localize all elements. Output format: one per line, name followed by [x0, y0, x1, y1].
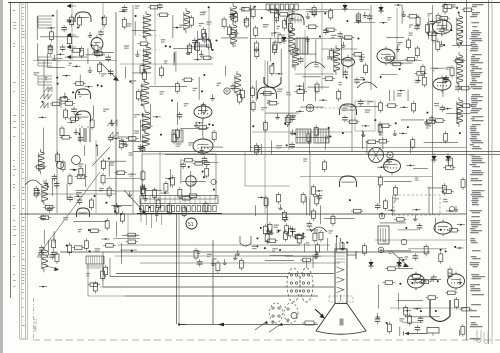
- connector circle d: [224, 88, 230, 94]
- top edge row components: [119, 2, 457, 35]
- svg-text:7BR-301: 7BR-301: [34, 319, 38, 332]
- coil L14: [334, 45, 340, 75]
- connector circle g: [449, 206, 454, 211]
- wire y176 segment: [300, 176, 433, 178]
- socket pin circles: [272, 307, 289, 323]
- vertical wire x213: [212, 240, 214, 325]
- CRT anode connection: [347, 251, 356, 259]
- CRT neck top leads: [336, 238, 344, 249]
- wire L corner: [245, 152, 290, 186]
- wire yoke line y273: [116, 273, 334, 275]
- connector circle f: [306, 104, 314, 112]
- wire y132 segment: [252, 131, 352, 133]
- tube V7b sync sep: [340, 104, 357, 115]
- wire bus y263: [140, 262, 340, 264]
- tube V17a small circle: [186, 176, 196, 186]
- tube V6 video amp: [286, 14, 304, 25]
- wire y60 segment: [33, 60, 116, 62]
- flyback dashed box: [394, 195, 440, 215]
- socket pointer arrows: [255, 321, 283, 332]
- coil L19 linearity coil: [42, 247, 48, 272]
- terminal strip TS1: [140, 206, 216, 212]
- tube V2a: [76, 89, 91, 99]
- small tube circle a: [56, 161, 63, 168]
- wire bus y148: [250, 147, 466, 149]
- beam arrow: [315, 309, 325, 319]
- RF tuner components: [34, 15, 114, 94]
- waveform marks left: [40, 94, 52, 108]
- dashed link wire: [316, 107, 352, 109]
- IF strip components: [122, 5, 249, 105]
- vertical wire x265: [264, 60, 266, 214]
- wire bottom run y324: [178, 324, 318, 326]
- vertical wire x322: [321, 3, 323, 90]
- CRT socket center circle: [291, 313, 297, 319]
- fuse box bottom right: [427, 328, 439, 337]
- vertical wire x289: [288, 8, 290, 150]
- vertical wire x371: [370, 5, 372, 90]
- sync components: [251, 99, 378, 156]
- coil L2: [143, 44, 151, 74]
- vertical wire x155: [154, 5, 156, 85]
- shield box V8: [355, 101, 375, 131]
- channel selector contact bank 2: [38, 57, 52, 66]
- coil L11: [235, 71, 241, 96]
- wire bus y252: [60, 251, 430, 253]
- video output components: [256, 221, 321, 268]
- brightness pot: [302, 321, 317, 325]
- vertical wire x72: [71, 3, 73, 60]
- output transformer T2: [86, 256, 104, 264]
- wire hump jump d: [25, 180, 41, 185]
- section divider x128 lower: [127, 214, 129, 245]
- diode D3: [431, 153, 436, 163]
- tube V13 frame output: [434, 220, 452, 237]
- coil tap dashes: [139, 36, 160, 51]
- vertical wire x116: [115, 12, 117, 213]
- connector circle b: [401, 239, 407, 245]
- vertical wire x57: [56, 10, 58, 213]
- coil L7: [231, 3, 237, 23]
- vertical wire x160: [159, 152, 161, 204]
- delay line DL1b: [314, 129, 329, 143]
- left margin fold line: [10, 3, 12, 298]
- vertical wire x433: [432, 5, 434, 215]
- sound section components: [379, 4, 474, 101]
- left margin column lines: [20, 3, 28, 338]
- diode D1: [378, 4, 383, 14]
- tube V5 video pentode: [193, 137, 213, 156]
- indicator circle: [387, 152, 393, 158]
- vertical wire x103: [102, 3, 104, 30]
- vertical wire x96: [95, 140, 97, 213]
- rotary switch S1: [369, 148, 384, 163]
- tube V8: [377, 47, 395, 66]
- coil L4 IF transformer: [142, 109, 150, 134]
- long diagonal pointer: [37, 172, 100, 257]
- wire y194: [33, 193, 116, 195]
- vertical wire x133: [132, 5, 134, 214]
- wire top y10 segment: [250, 9, 370, 11]
- tube V1b mixer: [91, 35, 103, 53]
- tube V19 AGC dome: [77, 208, 90, 217]
- pointer arrow tuner: [100, 62, 119, 81]
- coil L1 IF transformer: [143, 11, 151, 41]
- diode D2: [281, 34, 286, 44]
- coil L15 sound det: [457, 13, 463, 48]
- right margin line ends: [477, 330, 488, 344]
- waveform marks mid: [44, 87, 118, 138]
- wire y64 segment: [120, 63, 213, 65]
- shielded coil block: [296, 38, 308, 54]
- dash-dot section divider: [33, 298, 35, 339]
- vertical wire x352: [351, 40, 353, 152]
- delay line DL1a: [296, 129, 311, 143]
- tuner mid components: [38, 91, 133, 156]
- coil L5: [142, 130, 149, 150]
- yoke winding circles: [290, 274, 309, 292]
- bottom dashed border: [33, 339, 500, 341]
- diagonal pointer video: [92, 147, 110, 166]
- vertical wire x398 lower: [398, 293, 400, 310]
- line osc components: [139, 156, 218, 218]
- frame blanking components: [39, 265, 108, 294]
- output transformer T2 windings: [86, 266, 104, 268]
- coil L12 sound IF: [289, 25, 295, 55]
- coil L13: [293, 45, 299, 70]
- arrow bottom right: [404, 332, 428, 336]
- vertical wire x397: [396, 8, 398, 60]
- tube V3 IF amp: [195, 39, 212, 50]
- svg-text:51: 51: [188, 222, 194, 228]
- tube V12 audio out: [433, 18, 452, 37]
- wire yoke line y287: [103, 252, 334, 287]
- filter block: [172, 130, 183, 142]
- wire bus y256: [115, 255, 335, 257]
- antenna terminal marks: [67, 4, 77, 59]
- wire y308 segment: [390, 307, 466, 309]
- diode D7: [342, 2, 347, 12]
- terminal strip TS1 rail: [137, 213, 222, 215]
- tube V1 tuner triode: [75, 12, 91, 22]
- boost choke box: [378, 226, 389, 244]
- coil L8: [231, 22, 237, 47]
- pointer arrow AGC: [124, 190, 147, 215]
- video amp components: [250, 5, 375, 102]
- video det components: [119, 100, 223, 153]
- terminal strip drop wires: [141, 214, 162, 229]
- oscillator module box: [142, 154, 216, 199]
- wire yoke line y296: [125, 295, 318, 297]
- coil L3: [141, 79, 149, 109]
- tube V17b indicator circle 51: [186, 218, 197, 229]
- connector circle a: [379, 213, 385, 219]
- vertical wire x310: [309, 152, 311, 214]
- AGC components: [34, 152, 140, 264]
- CRT socket coil b: [284, 303, 298, 323]
- small tube circle b: [72, 156, 81, 165]
- sound det components: [374, 100, 472, 153]
- top border line: [8, 2, 500, 4]
- vertical wire x250: [250, 5, 252, 152]
- vertical wire x176 pair: [177, 214, 180, 324]
- CRT picture tube V14: [316, 249, 366, 334]
- coil L6: [184, 8, 190, 33]
- wire y240 segment: [375, 239, 466, 241]
- wire hump jump a: [305, 62, 325, 68]
- left margin annotation text: [13, 4, 38, 339]
- channel selector contact bank 3: [38, 76, 52, 85]
- pointer arrow boost: [392, 252, 409, 267]
- wire hump jump b: [311, 227, 327, 232]
- tube V2b: [76, 111, 91, 122]
- tube V11 audio amp: [433, 76, 451, 93]
- transformer T1 sound output: [80, 126, 90, 142]
- coil L18 width coil: [42, 180, 48, 205]
- wire y38 segment: [250, 38, 352, 40]
- tube V7a sync: [258, 87, 277, 99]
- channel selector contact bank 1: [38, 16, 52, 28]
- video driver components: [194, 246, 257, 273]
- frame osc components: [255, 158, 366, 255]
- pointer arrow frame: [46, 266, 59, 271]
- wire yoke line y276: [110, 258, 288, 277]
- wire bus y152a: [133, 151, 500, 153]
- wire bus y154: [165, 154, 500, 156]
- right margin parts list text: [470, 4, 486, 339]
- connector circle c: [378, 247, 384, 253]
- tube V10 line osc: [340, 176, 357, 187]
- right margin line B: [489, 0, 493, 344]
- wire main bus y214: [20, 213, 466, 215]
- tube V16 damper: [448, 272, 465, 291]
- frame output stage boundary box: [88, 264, 125, 296]
- connection board outline: [140, 196, 218, 204]
- CRT socket coil a: [270, 303, 283, 323]
- diode D4: [445, 153, 450, 163]
- vertical wire x305: [304, 30, 306, 90]
- deflection yoke L10 vertical: [300, 268, 313, 302]
- tube V8b AGC: [384, 157, 401, 175]
- tube V4 IF pentode: [194, 104, 212, 121]
- diode D6: [396, 259, 401, 269]
- vertical wire x209: [208, 8, 210, 60]
- connector circle e: [211, 179, 217, 184]
- wire hump jump c: [357, 82, 377, 88]
- HV components: [375, 156, 465, 266]
- arrow marks bottom run: [178, 323, 224, 327]
- diode D5: [368, 259, 373, 269]
- wire U loop video: [264, 77, 281, 88]
- heater wiring loop: [430, 300, 450, 322]
- line output components: [375, 267, 472, 337]
- coil L20 height coil: [38, 149, 44, 174]
- tube V15 line output: [408, 272, 425, 291]
- tube V9a: [342, 55, 355, 69]
- deflection yoke L9 horizontal: [287, 268, 300, 302]
- wire bus y245: [118, 244, 330, 246]
- coil L17: [457, 97, 463, 127]
- coil L16: [457, 52, 463, 87]
- right margin line A: [466, 0, 468, 340]
- wire U loop: [240, 236, 251, 246]
- terminal strip TS2: [266, 4, 298, 10]
